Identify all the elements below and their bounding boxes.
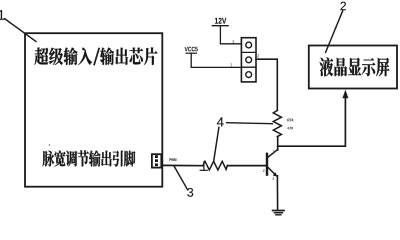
ground symbol (273, 210, 284, 212)
leader line from label 3 to J2 wire (174, 166, 188, 190)
leader line from label 2 to LCD box (326, 11, 343, 53)
wire 12V to J1 pin 3 (220, 26, 241, 44)
label 1 (0, 10, 4, 20)
Q1 tiny pin number 3 (272, 177, 274, 180)
wire J1 pin 2 to resistor R2 (256, 59, 277, 110)
tiny net label PWM (169, 158, 171, 161)
transistor Q1 base bar (266, 154, 268, 175)
label 2 (341, 2, 346, 10)
transistor Q1 collector stroke (268, 149, 278, 157)
wire from J2 to resistor R1 (162, 164, 203, 166)
leader line from label 4 to resistor R2 (227, 123, 273, 124)
J1 pin number 2 (257, 54, 259, 57)
J1 pin number 3 (232, 40, 234, 43)
label 3 (187, 188, 193, 197)
arrowhead into LCD (342, 90, 348, 99)
power label 12V (215, 18, 218, 24)
LCD text: 液晶显示屏 (320, 57, 390, 76)
R2 value label line 2 (287, 127, 289, 129)
Q1 tiny pin number 2 (263, 169, 265, 172)
transistor Q1 emitter stroke with arrow (268, 167, 276, 175)
resistor R1 (base series resistor) (203, 161, 228, 170)
chip U1 title text: 超级输入/输出芯片 (35, 47, 93, 65)
connector J2 (PWM output pin header) (152, 154, 161, 167)
label 4 (217, 117, 224, 126)
chip U1: super I/O chip box (25, 33, 162, 187)
chip U1 pin label text: 脉宽调节输出引脚 (43, 150, 136, 166)
connector J1 (3-pin power header) (241, 38, 256, 82)
LCD display box (309, 46, 397, 89)
wire collector node to LCD (278, 97, 346, 147)
R1 left end tick (203, 162, 205, 171)
power label VCC5 (185, 47, 188, 51)
Q1 tiny pin number 1 (273, 150, 275, 153)
wire Q1 collector lead (277, 137, 279, 150)
wire VCC5 to J1 pin 1 (191, 53, 241, 67)
wire Q1 emitter lead down to ground (276, 176, 278, 210)
resistor R2 (collector pull-up) (273, 110, 281, 136)
leader line from label 1 to chip U1 (5, 19, 37, 42)
scan speck (49, 144, 50, 145)
tiny pin number 1 on VCC5 wire (231, 63, 233, 66)
slash in chip title (94, 49, 99, 65)
wire from R1 to Q1 base (227, 165, 266, 167)
R2 value label line 1 (288, 119, 290, 122)
leader line from label 4 to resistor R1 (214, 127, 219, 161)
